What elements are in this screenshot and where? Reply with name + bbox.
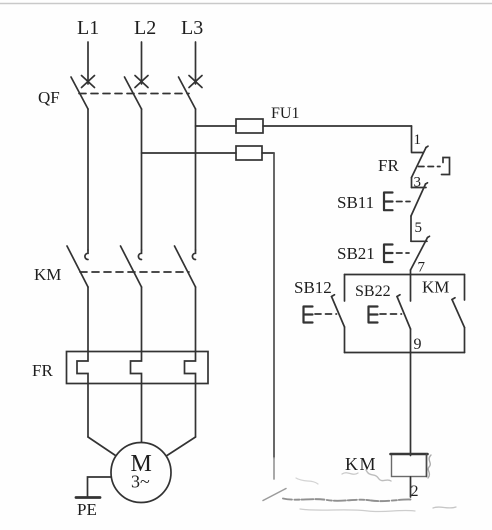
node 7: [411, 260, 426, 276]
wire phase B QF to KM: [141, 109, 143, 250]
wire control return line: [273, 153, 275, 479]
wire fuse feed from L2: [142, 152, 237, 154]
scan artifact top edge line: [0, 3, 492, 5]
wire phase C FR to motor: [167, 384, 196, 456]
svg-text:FR: FR: [32, 361, 53, 380]
wire parallel branch bottom: [345, 352, 465, 354]
overload relay FR heater element 3: [185, 352, 196, 384]
breaker QF pole 1: [71, 76, 95, 110]
svg-text:3~: 3~: [131, 472, 150, 492]
wire phase B KM to FR: [141, 287, 143, 352]
node 1: [412, 126, 422, 152]
breaker QF pole 3: [179, 76, 203, 110]
svg-text:FR: FR: [378, 156, 399, 175]
pushbutton SB21 label: [337, 244, 375, 263]
svg-text:SB22: SB22: [355, 283, 391, 300]
node L1: [77, 17, 99, 84]
contactor KM label: [34, 265, 61, 284]
contactor coil KM: [391, 454, 428, 477]
pushbutton SB22 label: [355, 283, 391, 300]
overload relay FR heater element 2: [131, 352, 142, 384]
relay FR label: [378, 156, 399, 175]
contactor coil KM label: [345, 454, 377, 474]
svg-text:2: 2: [411, 483, 419, 500]
pushbutton SB11 (NC stop): [384, 183, 428, 216]
contactor KM mechanical link: [80, 271, 189, 273]
wire phase C QF to KM: [195, 109, 197, 250]
svg-text:PE: PE: [77, 500, 97, 519]
node L3: [181, 17, 203, 84]
node 5: [411, 216, 422, 241]
svg-text:FU1: FU1: [271, 105, 299, 122]
contactor KM auxiliary contact (NO): [452, 275, 465, 353]
svg-text:KM: KM: [422, 278, 449, 297]
svg-text:L2: L2: [134, 17, 156, 39]
wire phase B FR to motor: [141, 384, 143, 445]
svg-text:KM: KM: [345, 454, 377, 474]
svg-text:SB12: SB12: [294, 278, 332, 297]
pushbutton SB22 (NO start): [369, 275, 411, 353]
svg-text:KM: KM: [34, 265, 61, 284]
ground PE: [76, 477, 111, 519]
node 2: [411, 477, 419, 500]
pushbutton SB21 (NC stop): [384, 236, 430, 270]
pushbutton SB11 label: [337, 193, 374, 212]
contactor KM main pole 2: [121, 246, 142, 287]
svg-text:7: 7: [418, 260, 426, 276]
contactor KM main pole 1: [67, 246, 88, 287]
motor M 3~: [111, 443, 171, 503]
fuse FU1 lower: [236, 146, 274, 160]
node 9: [414, 336, 422, 353]
fuse FU1 upper: [236, 119, 412, 133]
wire coil return (faded): [263, 489, 411, 502]
svg-text:1: 1: [414, 132, 422, 148]
wire phase A QF to KM: [87, 109, 89, 250]
wire fuse feed from L3: [196, 125, 237, 127]
svg-text:QF: QF: [38, 88, 60, 107]
wire phase C KM to FR: [195, 287, 197, 352]
wire phase A FR to motor: [88, 384, 116, 456]
wire to coil: [410, 353, 412, 456]
overload relay FR heater element 1: [77, 352, 88, 384]
overload relay FR label: [32, 361, 53, 380]
svg-text:SB11: SB11: [337, 193, 374, 212]
pushbutton SB12 label: [294, 278, 332, 297]
svg-text:L1: L1: [77, 17, 99, 39]
node 3: [412, 175, 422, 191]
wire parallel branch top: [345, 274, 465, 276]
contactor KM aux label: [422, 278, 449, 297]
svg-text:5: 5: [415, 220, 423, 236]
relay contact FR (NC): [412, 146, 450, 177]
svg-text:9: 9: [414, 336, 422, 353]
breaker QF label: [38, 88, 60, 107]
breaker QF pole 2: [125, 76, 149, 110]
watermark artifact near coil: [296, 455, 456, 512]
fuse FU1 label: [271, 105, 299, 122]
wire phase A KM to FR: [87, 287, 89, 352]
breaker QF mechanical link: [79, 93, 189, 95]
svg-text:L3: L3: [181, 17, 203, 39]
overload relay FR heater box: [67, 352, 209, 384]
pushbutton SB12 (NO start): [304, 275, 345, 353]
node L2: [134, 17, 156, 84]
contactor KM main pole 3: [175, 246, 196, 287]
svg-text:SB21: SB21: [337, 244, 375, 263]
